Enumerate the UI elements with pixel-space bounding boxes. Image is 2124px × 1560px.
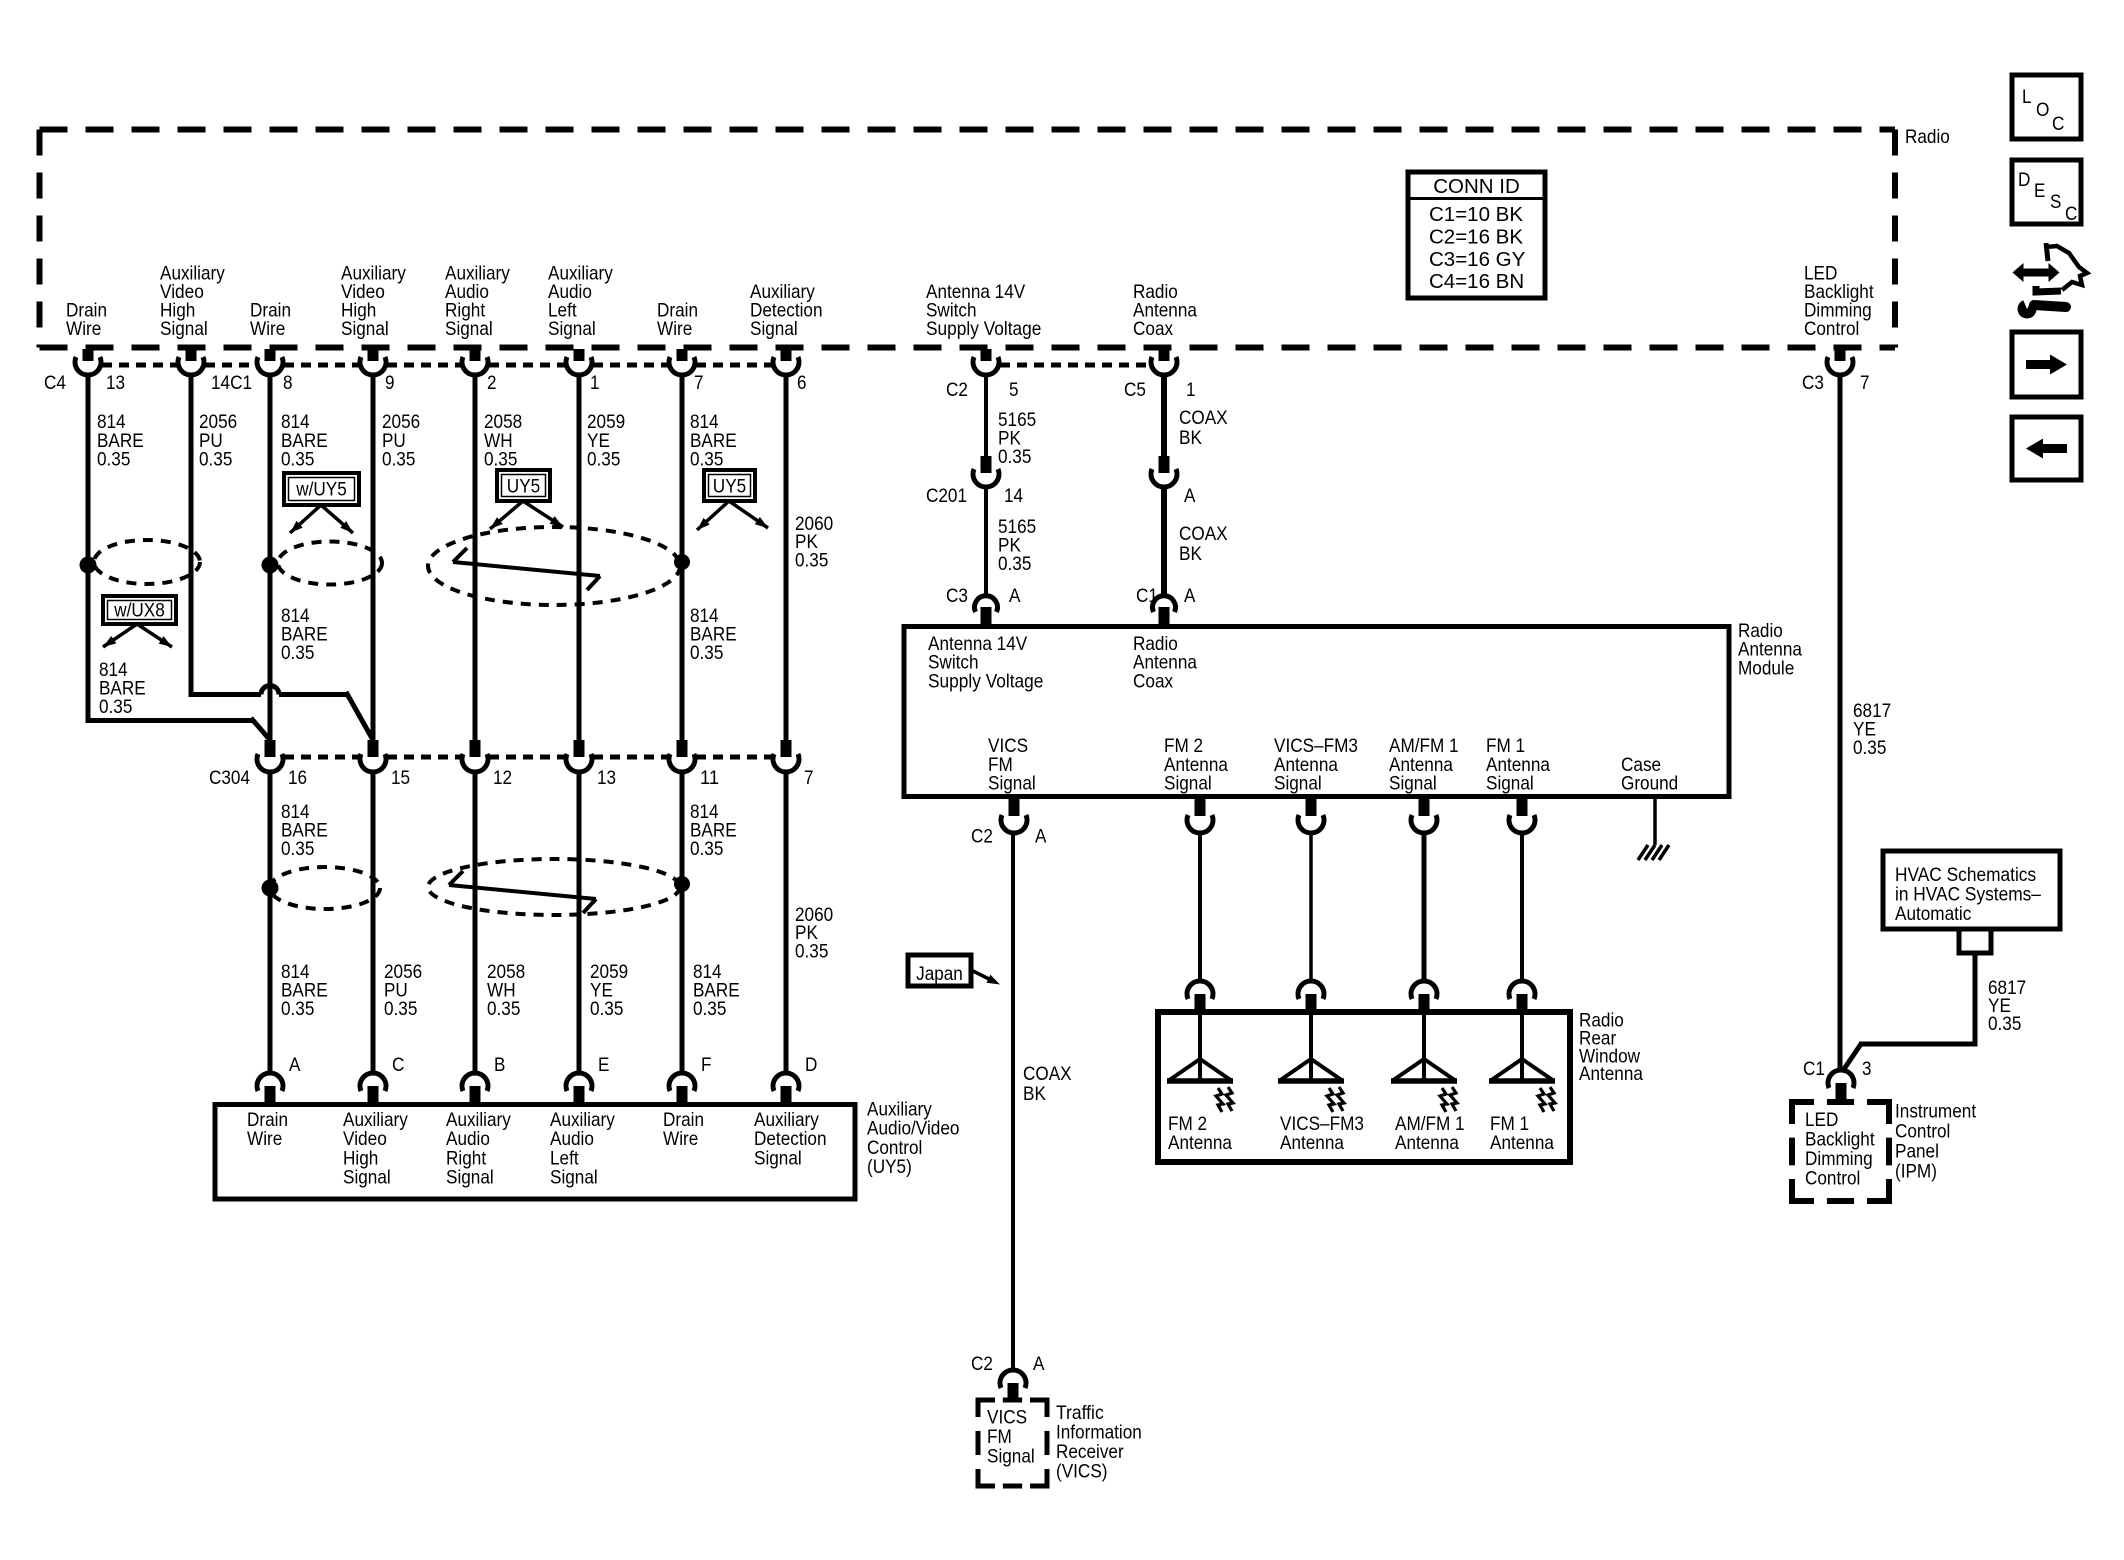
svg-text:Wire: Wire [66, 318, 101, 340]
svg-text:0.35: 0.35 [99, 696, 133, 718]
pin label 7 [694, 372, 704, 394]
svg-text:Supply Voltage: Supply Voltage [926, 318, 1041, 340]
value label 814 BARE 0.35 wire8 mid [281, 605, 328, 664]
svg-text:UY5: UY5 [713, 476, 747, 498]
pin label VICS FM Signal module bottom [988, 735, 1036, 795]
CONN ID table [1408, 172, 1545, 298]
value label COAX BK lower [1179, 523, 1228, 565]
svg-text:Automatic: Automatic [1895, 903, 1972, 925]
svg-text:0.35: 0.35 [998, 553, 1032, 575]
connector pin top row x=270 [257, 349, 283, 375]
wire 6817 YE from radio C3-7 [1838, 374, 1843, 1071]
connector C304 pin 16 [257, 740, 283, 772]
svg-text:Panel: Panel [1895, 1141, 1939, 1163]
svg-text:C2: C2 [971, 826, 993, 848]
svg-text:3: 3 [1862, 1058, 1872, 1080]
pin label 15 C304 [391, 767, 410, 789]
svg-text:Antenna: Antenna [1579, 1063, 1643, 1085]
svg-text:16: 16 [288, 767, 307, 789]
label Radio Rear Window Antenna [1579, 1010, 1643, 1086]
connector pin C1-3 instrument panel [1828, 1070, 1854, 1102]
svg-text:0.35: 0.35 [281, 642, 315, 664]
wire 814 BARE from pin 7 [680, 374, 685, 742]
label pin Auxiliary Video High Signal (9) [341, 263, 406, 341]
antenna symbol FM 2 [1167, 1012, 1233, 1112]
svg-text:Signal: Signal [1164, 773, 1212, 795]
svg-text:0.35: 0.35 [199, 449, 233, 471]
connector pin D aux box [773, 1073, 799, 1103]
svg-text:C2: C2 [971, 1353, 993, 1375]
arrow from Japan box [969, 969, 1000, 985]
wire case ground [1653, 799, 1657, 845]
pin label B [494, 1054, 505, 1076]
svg-text:13: 13 [597, 767, 616, 789]
label pin Drain Wire (8) [250, 300, 291, 341]
svg-text:0.35: 0.35 [281, 838, 315, 860]
pin label Auxiliary Audio Right Signal in aux box [446, 1109, 511, 1189]
label Radio [1905, 126, 1950, 148]
svg-text:E: E [2034, 180, 2045, 202]
pin label Radio Antenna Coax module [1133, 633, 1197, 692]
svg-text:Signal: Signal [754, 1147, 802, 1169]
svg-text:O: O [2036, 99, 2049, 121]
svg-text:6: 6 [797, 372, 807, 394]
value label 2059 YE 0.35 at x=587 [587, 411, 625, 471]
svg-text:Wire: Wire [250, 318, 285, 340]
label pin Drain Wire (7) [657, 300, 698, 341]
icon LOC box [2012, 75, 2081, 139]
pin label C1 module [1136, 585, 1158, 607]
svg-text:Signal: Signal [550, 1167, 598, 1189]
pin label 5 top [1009, 379, 1019, 401]
wire 814 BARE from pin 8 [268, 374, 273, 742]
connector pin F aux box [669, 1073, 695, 1103]
svg-text:Signal: Signal [988, 773, 1036, 795]
svg-text:0.35: 0.35 [281, 449, 315, 471]
svg-text:UY5: UY5 [507, 476, 541, 498]
svg-text:C3: C3 [1802, 372, 1824, 394]
label FM 2 Antenna [1168, 1113, 1232, 1154]
svg-text:0.35: 0.35 [690, 838, 724, 860]
junction dot on wire C4-13 [80, 557, 97, 574]
connector pin FM 1 below module [1509, 798, 1535, 833]
value label 2056 PU 0.35 at x=382 [382, 411, 420, 471]
twisted pair ellipse wires 16-15 lower [270, 867, 380, 909]
pin label C2 top [946, 379, 968, 401]
svg-text:15: 15 [391, 767, 410, 789]
twisted pair ellipse audio pair upper [428, 527, 680, 605]
svg-text:0.35: 0.35 [97, 449, 131, 471]
svg-text:Wire: Wire [663, 1128, 698, 1150]
svg-text:11: 11 [700, 767, 719, 789]
svg-text:Control: Control [1805, 1168, 1860, 1190]
svg-text:13: 13 [106, 372, 125, 394]
svg-text:14C1: 14C1 [211, 372, 252, 394]
component LED Backlight Dimming Control dashed box [1792, 1102, 1889, 1201]
twisted pair ellipse audio pair lower [428, 859, 680, 915]
pin label 7 top right [1860, 372, 1870, 394]
label AM/FM 1 Antenna [1395, 1113, 1465, 1154]
svg-text:0.35: 0.35 [382, 449, 416, 471]
value label 6817 YE 0.35 right lower [1988, 977, 2026, 1035]
svg-text:A: A [1009, 585, 1020, 607]
svg-text:0.35: 0.35 [690, 449, 724, 471]
option box w/UX8 [103, 596, 176, 624]
value label 814 BARE 0.35 under w/UX8 [99, 659, 146, 718]
svg-text:Antenna: Antenna [1490, 1132, 1554, 1154]
svg-text:2: 2 [487, 372, 497, 394]
pin label A below module [1035, 826, 1046, 848]
pin label Drain Wire in aux box [247, 1109, 288, 1150]
svg-text:Signal: Signal [1486, 773, 1534, 795]
svg-text:C1: C1 [1136, 585, 1158, 607]
svg-text:CONN ID: CONN ID [1433, 175, 1520, 198]
label VICS–FM3 Antenna [1280, 1113, 1364, 1154]
wire VICS FM signal COAX [1011, 833, 1015, 1371]
svg-text:A: A [1184, 485, 1195, 507]
connector pin C1-A module [1153, 596, 1176, 626]
pin label 1 [590, 372, 600, 394]
svg-text:Ground: Ground [1621, 773, 1678, 795]
pin label C5 top [1124, 379, 1146, 401]
svg-text:7: 7 [694, 372, 704, 394]
svg-text:C3: C3 [946, 585, 968, 607]
connector pin C5-1 [1151, 349, 1177, 375]
svg-text:BK: BK [1023, 1083, 1046, 1105]
svg-text:Signal: Signal [1389, 773, 1437, 795]
pin label C3 top right [1802, 372, 1824, 394]
component Auxiliary Audio/Video Control box [215, 1105, 855, 1200]
arrows from w/UY5 [290, 505, 353, 533]
arrows from UY5 first [490, 501, 563, 529]
label pin Auxiliary Detection Signal (6) [750, 281, 823, 340]
connector pin top row x=88 [75, 349, 101, 375]
pin label C4 [44, 372, 66, 394]
connector C304 pin 7 [773, 740, 799, 772]
svg-text:COAX: COAX [1023, 1063, 1072, 1085]
svg-text:7: 7 [1860, 372, 1870, 394]
option box UY5 first [497, 470, 550, 501]
svg-text:Control: Control [1895, 1121, 1950, 1143]
junction dot on wire 7 upper [674, 554, 690, 570]
connector C201 pin 14 [973, 456, 999, 487]
connector pin AM/FM 1 below module [1411, 798, 1437, 833]
connector C304 pin 11 [669, 740, 695, 772]
svg-text:Control: Control [1804, 318, 1859, 340]
svg-text:5: 5 [1009, 379, 1019, 401]
label HVAC Schematics in HVAC Systems Automatic [1895, 864, 2041, 925]
pin label VICS–FM3 Antenna Signal module bottom [1274, 735, 1358, 795]
value label 814 BARE 0.35 at x=97 [97, 411, 144, 471]
svg-text:0.35: 0.35 [795, 940, 829, 962]
svg-text:(UY5): (UY5) [867, 1156, 912, 1178]
value label 814 BARE 0.35 wire7 mid [690, 605, 737, 664]
junction dot on wire 16 lower [262, 880, 279, 897]
svg-text:BK: BK [1179, 543, 1202, 565]
svg-text:0.35: 0.35 [1853, 737, 1887, 759]
svg-text:A: A [1184, 585, 1195, 607]
value label 5165 PK 0.35 upper [998, 409, 1036, 468]
svg-text:0.35: 0.35 [690, 642, 724, 664]
value label 814 BARE 0.35 at x=690 [690, 411, 737, 471]
label pin Auxiliary Audio Right Signal (2) [445, 263, 510, 341]
wire FM 2 antenna [1198, 833, 1202, 982]
value label 814 BARE 0.35 bottom [281, 961, 328, 1020]
connector dash line C304 [284, 755, 772, 760]
svg-text:14: 14 [1004, 485, 1023, 507]
svg-text:D: D [2018, 169, 2030, 191]
pin label 16 C304 [288, 767, 307, 789]
connector pin B aux box [462, 1073, 488, 1103]
connector C304 pin 15 [360, 740, 386, 772]
pin label AM/FM 1 Antenna Signal module bottom [1389, 735, 1459, 795]
wire 5165 PK lower [984, 487, 988, 596]
svg-text:Signal: Signal [987, 1445, 1035, 1467]
label Traffic Information Receiver (VICS) [1056, 1402, 1142, 1483]
value label 814 BARE 0.35 bottom [693, 961, 740, 1020]
pin label Auxiliary Video High Signal in aux box [343, 1109, 408, 1189]
connector pin E aux box [566, 1073, 592, 1103]
svg-text:w/UY5: w/UY5 [295, 479, 347, 501]
connector label C304 [209, 767, 250, 789]
value label 2060 PK 0.35 lower [795, 904, 833, 962]
svg-text:Wire: Wire [657, 318, 692, 340]
value label 814 BARE 0.35 lower left [281, 801, 328, 860]
wire segment HVAC join to C1-3 [1842, 1044, 1978, 1072]
icon wrench with double arrow [2013, 243, 2088, 319]
pin label 13 C304 [597, 767, 616, 789]
svg-text:C4: C4 [44, 372, 66, 394]
wire 2059 YE from pin 1 [577, 374, 582, 742]
svg-text:Signal: Signal [343, 1167, 391, 1189]
svg-text:Antenna: Antenna [1395, 1132, 1459, 1154]
connector pin A aux box [257, 1073, 283, 1103]
svg-text:(VICS): (VICS) [1056, 1461, 1108, 1483]
value label 814 BARE 0.35 at x=281 [281, 411, 328, 471]
svg-text:C: C [392, 1054, 404, 1076]
svg-text:Antenna: Antenna [1280, 1132, 1344, 1154]
wire 5165 PK upper [984, 374, 988, 457]
pin label FM 1 Antenna Signal module bottom [1486, 735, 1550, 795]
pin label A module antenna [1009, 585, 1020, 607]
connector pin top row x=682 [669, 349, 695, 375]
svg-text:F: F [701, 1054, 712, 1076]
svg-text:C1=10 BK: C1=10 BK [1429, 203, 1523, 226]
svg-text:A: A [289, 1054, 300, 1076]
svg-text:Radio: Radio [1905, 126, 1950, 148]
pin label 1 top [1186, 379, 1196, 401]
connector label C201 [926, 485, 967, 507]
option box UY5 second [704, 470, 755, 501]
svg-text:E: E [598, 1054, 609, 1076]
connector pin rear window antenna x=1424 [1411, 981, 1437, 1011]
option box Japan [908, 955, 971, 986]
wire 2058 WH lower section [473, 772, 478, 1073]
svg-text:9: 9 [385, 372, 395, 394]
pin label F [701, 1054, 712, 1076]
component VICS FM Signal dashed box [978, 1400, 1047, 1486]
pin label 12 C304 [493, 767, 512, 789]
svg-text:Instrument: Instrument [1895, 1101, 1977, 1123]
pin label A [289, 1054, 300, 1076]
connector dash line C2-C5 [1000, 363, 1150, 368]
pin label VICS FM Signal box text [987, 1407, 1035, 1468]
icon DESC box [2012, 160, 2081, 225]
wire 2056 PU from pin 9 [371, 374, 376, 742]
svg-text:Supply Voltage: Supply Voltage [928, 670, 1043, 692]
component HVAC Schematics reference box [1883, 851, 2060, 929]
wire segment C4-13 horizontal to C304-16 [88, 718, 270, 740]
wire COAX BK upper [1161, 374, 1167, 457]
icon right arrow box [2012, 332, 2081, 397]
label pin Auxiliary Audio Left Signal (1) [548, 263, 613, 341]
pin label A coax inline [1184, 485, 1195, 507]
pin label Auxiliary Detection Signal in aux box [754, 1109, 827, 1169]
pin label 14C1 [211, 372, 252, 394]
svg-text:Module: Module [1738, 657, 1794, 679]
label pin Drain Wire (C4-13) [66, 300, 107, 341]
svg-text:0.35: 0.35 [590, 998, 624, 1020]
wire 2060 PK lower section [784, 772, 789, 1073]
connector pin FM 2 below module [1187, 798, 1213, 833]
pin label 2 [487, 372, 497, 394]
wire 2056 PU from C1-14 [189, 374, 194, 697]
twisted pair ellipse wires 8-9 [278, 542, 382, 585]
pin label 11 C304 [700, 767, 719, 789]
pin label Auxiliary Audio Left Signal in aux box [550, 1109, 615, 1189]
wire 2056 PU lower section [371, 772, 376, 1073]
svg-text:0.35: 0.35 [998, 446, 1032, 468]
svg-text:0.35: 0.35 [484, 449, 518, 471]
svg-text:D: D [805, 1054, 817, 1076]
label pin Auxiliary Video High Signal (C1-14) [160, 263, 225, 341]
connector pin C3-7 radio [1827, 349, 1853, 375]
svg-text:L: L [2022, 86, 2032, 108]
svg-text:Antenna: Antenna [1168, 1132, 1232, 1154]
value label 2056 PU 0.35 at x=199 [199, 411, 237, 471]
pin label Drain Wire in aux box [663, 1109, 704, 1150]
svg-text:8: 8 [283, 372, 293, 394]
pin label 6 [797, 372, 807, 394]
svg-text:7: 7 [804, 767, 814, 789]
pin label A module coax [1184, 585, 1195, 607]
connector pin VICS FM Signal below module [1001, 798, 1027, 833]
value label 2060 PK 0.35 upper [795, 513, 833, 571]
pin label 13 [106, 372, 125, 394]
value label 5165 PK 0.35 lower [998, 516, 1036, 575]
svg-text:0.35: 0.35 [795, 549, 829, 571]
pin label E [598, 1054, 609, 1076]
svg-text:Coax: Coax [1133, 318, 1173, 340]
svg-text:(IPM): (IPM) [1895, 1161, 1937, 1183]
svg-text:Wire: Wire [247, 1128, 282, 1150]
wire AM/FM 1 antenna [1422, 833, 1427, 982]
value label COAX BK upper [1179, 407, 1228, 449]
svg-text:0.35: 0.35 [693, 998, 727, 1020]
pin label C2 vics [971, 1353, 993, 1375]
pin label 7 C304 [804, 767, 814, 789]
connector pin top row x=373 [360, 349, 386, 375]
connector dash line top row [102, 363, 772, 368]
twisted pair ellipse wires 13-14 [94, 540, 200, 584]
junction dot on wire 11 lower [674, 876, 690, 892]
connector pin rear window antenna x=1311 [1298, 981, 1324, 1011]
wire 814 BARE lower section [680, 772, 685, 1073]
wire 2060 PK from pin 6 [784, 374, 789, 742]
arrows from UY5 second [697, 501, 768, 530]
svg-text:COAX: COAX [1179, 407, 1228, 429]
pin label Case Ground module [1621, 754, 1678, 795]
label FM 1 Antenna [1490, 1113, 1554, 1154]
connector pin top row x=191 [178, 349, 204, 375]
svg-text:0.35: 0.35 [587, 449, 621, 471]
option box w/UY5 [284, 473, 359, 505]
wire VICS-FM3 antenna [1309, 833, 1313, 982]
svg-text:C2=16 BK: C2=16 BK [1429, 225, 1523, 248]
svg-text:Signal: Signal [341, 318, 389, 340]
pin label 3 instrument [1862, 1058, 1872, 1080]
antenna symbol VICS-FM3 [1278, 1012, 1344, 1112]
svg-text:12: 12 [493, 767, 512, 789]
pin label C [392, 1054, 404, 1076]
antenna symbol FM 1 [1489, 1012, 1555, 1112]
svg-text:COAX: COAX [1179, 523, 1228, 545]
pin label FM 2 Antenna Signal module bottom [1164, 735, 1228, 795]
label pin LED Backlight Dimming Control (C3-7) [1804, 263, 1874, 341]
value label 814 BARE 0.35 lower right [690, 801, 737, 860]
value label COAX BK vics wire [1023, 1063, 1072, 1105]
svg-text:Signal: Signal [750, 318, 798, 340]
inline connector coax A [1151, 456, 1177, 487]
pin label 8 [283, 372, 293, 394]
connector pin C2-A vics [1000, 1370, 1026, 1400]
pin label LED Backlight Dimming Control box text [1805, 1109, 1875, 1190]
component Radio Antenna Module box [904, 627, 1729, 797]
connector pin C3-A module [975, 596, 998, 626]
pin label C2 below module [971, 826, 993, 848]
connector pin rear window antenna x=1522 [1509, 981, 1535, 1011]
pin label D [805, 1054, 817, 1076]
svg-text:0.35: 0.35 [384, 998, 418, 1020]
svg-text:0.35: 0.35 [487, 998, 521, 1020]
connector C304 pin 12 [462, 740, 488, 772]
svg-text:C4=16 BN: C4=16 BN [1429, 270, 1524, 293]
svg-text:0.35: 0.35 [281, 998, 315, 1020]
pin label C3 module [946, 585, 968, 607]
label pin Antenna 14V Switch Supply Voltage (C2-5) [926, 281, 1041, 340]
svg-text:C5: C5 [1124, 379, 1146, 401]
connector pin top row x=786 [773, 349, 799, 375]
connector pin VICS-FM3 below module [1298, 798, 1324, 833]
wire COAX BK lower [1161, 487, 1167, 596]
label Auxiliary Audio/Video Control (UY5) [867, 1099, 960, 1179]
svg-text:BK: BK [1179, 427, 1202, 449]
pin label A vics [1033, 1353, 1044, 1375]
svg-text:Signal: Signal [1274, 773, 1322, 795]
wire 6817 YE from HVAC [1973, 953, 1978, 1046]
svg-text:Japan: Japan [916, 963, 963, 985]
svg-text:0.35: 0.35 [1988, 1013, 2022, 1035]
svg-text:B: B [494, 1054, 505, 1076]
bracket below HVAC box [1957, 929, 1994, 953]
svg-text:Signal: Signal [548, 318, 596, 340]
svg-text:C201: C201 [926, 485, 967, 507]
svg-text:Signal: Signal [446, 1167, 494, 1189]
component Radio dashed outline box [40, 130, 1896, 348]
value label 6817 YE 0.35 right upper [1853, 700, 1891, 759]
pin label C1 instrument [1803, 1058, 1825, 1080]
antenna symbol AM/FM 1 [1391, 1012, 1457, 1112]
